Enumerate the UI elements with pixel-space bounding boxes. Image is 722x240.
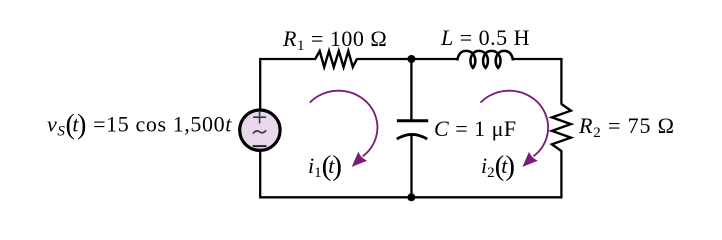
capacitor C bbox=[397, 121, 428, 139]
wire: top-left corner to R1 bbox=[259, 58, 316, 60]
wire: node A down to capacitor C bbox=[410, 59, 412, 121]
svg-text:R2 = 75 Ω: R2 = 75 Ω bbox=[578, 113, 675, 141]
wire: inductor to top-right corner down to R2 bbox=[513, 59, 562, 105]
wire: R2 to bottom-right corner bbox=[410, 151, 563, 199]
svg-text:i2(t): i2(t) bbox=[481, 150, 515, 182]
mesh current arrow i1 bbox=[310, 91, 378, 167]
label C = 1 μF bbox=[434, 116, 517, 141]
junction node A (top middle) bbox=[407, 55, 415, 63]
wire: capacitor to bottom node B bbox=[410, 135, 412, 198]
svg-text:vS(t) =15 cos 1,500t: vS(t) =15 cos 1,500t bbox=[47, 110, 232, 141]
svg-text:L = 0.5 H: L = 0.5 H bbox=[440, 25, 530, 50]
label R2 = 75 Ω bbox=[578, 113, 675, 141]
resistor R1 bbox=[315, 51, 357, 67]
svg-text:i1(t): i1(t) bbox=[308, 150, 342, 182]
junction node B (bottom middle) bbox=[407, 193, 415, 201]
wire: R1 to node A and on to inductor L bbox=[356, 58, 458, 60]
voltage source VS bbox=[240, 110, 280, 150]
wire: source top to top-left corner bbox=[259, 60, 261, 110]
label R1 = 100 Ω bbox=[282, 26, 387, 54]
label i1(t) bbox=[308, 150, 342, 182]
resistor R2 bbox=[552, 104, 571, 151]
mesh current arrow i2 bbox=[481, 91, 549, 167]
inductor L bbox=[457, 51, 513, 68]
svg-text:C = 1 μF: C = 1 μF bbox=[434, 116, 517, 141]
svg-text:R1 = 100 Ω: R1 = 100 Ω bbox=[282, 26, 387, 54]
label L = 0.5 H bbox=[440, 25, 530, 50]
voltage source label vS(t) = 15 cos 1,500t bbox=[47, 110, 232, 141]
label i2(t) bbox=[481, 150, 515, 182]
wire: bottom, node B to bottom-left corner and up to source bbox=[260, 150, 412, 197]
